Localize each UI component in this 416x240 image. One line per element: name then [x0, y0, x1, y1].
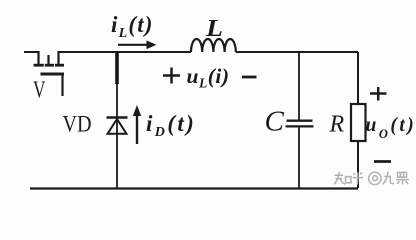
diode VD	[107, 118, 128, 134]
node junction (thick bar)	[115, 52, 119, 84]
capacitor C branch top wire	[298, 52, 300, 120]
svg-text:VD: VD	[63, 112, 92, 137]
transistor V (switch)	[34, 51, 65, 96]
diode VD branch wire	[116, 84, 118, 188]
wire bottom rail	[30, 187, 358, 189]
inductor L	[191, 39, 236, 52]
wire top right segment	[236, 51, 358, 53]
svg-text:iD(t): iD(t)	[146, 111, 196, 140]
svg-text:V: V	[33, 78, 46, 104]
svg-text:R: R	[329, 112, 345, 138]
label + (output)	[370, 87, 387, 101]
watermark 知乎 @九票	[334, 172, 409, 185]
svg-text:C: C	[265, 106, 285, 138]
arrow iL	[118, 41, 157, 50]
label − (output)	[374, 160, 391, 163]
svg-text:uL(i): uL(i)	[187, 64, 230, 91]
arrow iD	[133, 105, 141, 144]
capacitor C	[286, 121, 314, 127]
voltage label + uL(i) -	[163, 68, 180, 84]
wire top-left segment	[24, 51, 39, 53]
svg-text:L: L	[205, 16, 223, 42]
capacitor C branch bottom wire	[298, 127, 300, 188]
wire top middle segment	[59, 51, 192, 53]
svg-text:iL(t): iL(t)	[111, 12, 154, 41]
resistor R	[351, 104, 366, 141]
resistor R branch bottom wire	[357, 141, 359, 188]
resistor R branch top wire	[357, 52, 359, 104]
